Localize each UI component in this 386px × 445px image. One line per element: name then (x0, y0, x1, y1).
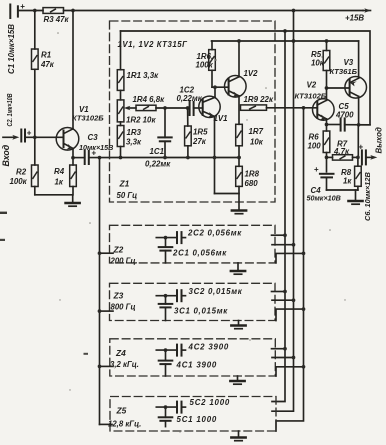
node supply-R5 (325, 39, 329, 43)
node bus-Z4 (98, 365, 102, 369)
svg-text:5С1 1000: 5С1 1000 (177, 415, 218, 424)
wire emitter to 1R8 bottom (215, 193, 240, 195)
ground output stage (348, 190, 362, 204)
svg-text:800 Гц: 800 Гц (111, 303, 136, 312)
svg-text:Выход: Выход (375, 127, 384, 153)
transistor V3 (330, 41, 367, 125)
scan artifact dash left edge 2 (0, 239, 5, 241)
wire Z4 stub3 to bus C (276, 367, 304, 376)
svg-text:200 Гц.: 200 Гц. (110, 257, 138, 266)
wire Z4 left stub (100, 365, 114, 367)
node base-R1-R2 (33, 135, 37, 139)
node busC-Z3 (302, 307, 306, 311)
block Z5 dashed box (110, 397, 276, 432)
capacitor C4 (307, 165, 341, 202)
svg-text:5С2 1000: 5С2 1000 (190, 398, 231, 407)
transistor 1V2 (225, 41, 259, 124)
wire Z3 stub1 to bus A (272, 291, 286, 293)
svg-text:3,2 кГц.: 3,2 кГц. (110, 360, 139, 369)
svg-text:+15В: +15В (345, 13, 364, 22)
node V2 emitter-R6-C5 (325, 123, 329, 127)
svg-text:0,22мк: 0,22мк (145, 159, 171, 168)
svg-text:2С2 0,056мк: 2С2 0,056мк (187, 228, 242, 237)
svg-text:1V1, 1V2 КТ315Г: 1V1, 1V2 КТ315Г (118, 40, 189, 49)
capacitor 3C1 (159, 296, 229, 321)
svg-text:27к: 27к (192, 137, 207, 146)
wire C1 to R3 (19, 10, 43, 12)
svg-text:50 Гц: 50 Гц (117, 191, 138, 200)
node busC-Z4 (302, 365, 306, 369)
node busB-Z4 (292, 356, 296, 360)
svg-text:R3 47к: R3 47к (44, 15, 70, 24)
svg-text:2С1 0,056мк: 2С1 0,056мк (172, 248, 227, 257)
svg-text:12,8 кГц.: 12,8 кГц. (108, 419, 141, 428)
scan artifact dash left edge (0, 212, 7, 214)
wire Z2 left stub (100, 252, 114, 254)
node rail-R1 (33, 9, 37, 13)
scan speckles (57, 32, 345, 432)
wire Z4 stub1 to bus A (272, 348, 286, 350)
ground Z5 (231, 431, 245, 441)
resistor R4 (54, 158, 76, 195)
node 1C1 tap (163, 106, 167, 110)
resistor 1R7 (236, 124, 264, 166)
svg-text:КТ3102Б: КТ3102Б (295, 92, 327, 101)
svg-text:1V1: 1V1 (214, 114, 228, 123)
svg-text:1R7: 1R7 (249, 127, 264, 136)
svg-text:4С2 3900: 4С2 3900 (188, 342, 230, 351)
svg-text:V3: V3 (344, 58, 354, 67)
resistor 1R8 (236, 166, 260, 210)
resistor R6 (308, 125, 330, 172)
svg-text:680: 680 (245, 179, 259, 188)
capacitor C5 (327, 102, 371, 131)
node busB-Z3 (292, 298, 296, 302)
svg-text:1к: 1к (55, 177, 64, 186)
ground Z2 (231, 263, 245, 274)
svg-text:С3: С3 (88, 133, 99, 142)
node 1C1 bottom (163, 156, 167, 160)
wire bus A (feedback) (272, 31, 285, 402)
node 1R5 tap (186, 106, 190, 110)
wire V3 base (327, 87, 350, 89)
svg-text:10мк×15В: 10мк×15В (79, 143, 113, 152)
wire C3 to Z1 input line (89, 157, 121, 159)
node 1R7-1R8-common (237, 156, 241, 160)
node rail-bus (292, 9, 296, 13)
wire Z3 stub2 to bus B (272, 299, 294, 301)
resistor R8 (341, 157, 361, 190)
transistor 1V1 (199, 87, 228, 193)
capacitor 5C2 (156, 398, 230, 413)
node collector tee (213, 85, 217, 89)
svg-text:50мк×10В: 50мк×10В (307, 193, 341, 202)
node 1V1 emitter on common line (213, 156, 217, 160)
node bus-Z3 (98, 309, 102, 313)
svg-text:0,22мк: 0,22мк (177, 94, 203, 103)
capacitor C3 (73, 133, 113, 164)
wire +15V rail (64, 10, 364, 12)
capacitor 1C1 (145, 108, 172, 168)
svg-text:3С1 0,015мк: 3С1 0,015мк (174, 307, 228, 316)
svg-text:Z1: Z1 (119, 179, 130, 189)
svg-text:100к: 100к (10, 177, 28, 186)
node R5-V2 collector-V3 base (325, 86, 329, 90)
node busC-Z2 (302, 252, 306, 256)
node 1R5 bottom (186, 156, 190, 160)
node output R7-R8-C6 (356, 156, 360, 160)
node R6-R7-C4 (325, 156, 329, 160)
node input bus tap (98, 156, 102, 160)
wire Z2 stub3 to bus C (276, 253, 304, 263)
capacitor 4C1 (159, 350, 217, 376)
capacitor 2C2 (156, 228, 242, 243)
input arrow (1, 135, 19, 167)
wire Z2 stub2 to bus B (272, 244, 294, 246)
capacitor 4C2 (156, 342, 229, 355)
node emitter-C3 (71, 156, 75, 160)
ground Z4 (230, 376, 244, 384)
svg-text:1R4 6,8к: 1R4 6,8к (133, 95, 166, 104)
capacitor 5C1 (159, 407, 217, 427)
svg-text:1С1: 1С1 (150, 147, 164, 156)
svg-text:Вход: Вход (1, 144, 11, 166)
block Z2 dashed box (110, 225, 276, 263)
node output-V3 collector-C5 (357, 123, 361, 127)
node 1R3 bottom (119, 156, 123, 160)
svg-text:1R2 10к: 1R2 10к (126, 115, 156, 124)
capacitor C6 (359, 143, 373, 222)
svg-text:1R3: 1R3 (127, 128, 142, 137)
wire Z3 left stub (100, 310, 114, 312)
wire C2 to V1 base (25, 136, 64, 138)
capacitor 3C2 (156, 287, 242, 301)
wire C4 bottom to R8 bottom (327, 189, 358, 191)
resistor 1R3 (117, 122, 142, 158)
resistor 1R9 (241, 95, 318, 111)
svg-text:V1: V1 (79, 105, 89, 114)
wire Z2 stub1 to bus A (272, 234, 286, 236)
node busB-Z2 (292, 243, 296, 247)
wire V3 collector down to R7/R8 node (357, 125, 359, 158)
capacitor 2C1 (159, 238, 228, 263)
transistor V2 (295, 80, 335, 124)
potentiometer 1R2 (117, 90, 156, 124)
svg-text:4700: 4700 (335, 110, 354, 119)
ground Z1 (232, 211, 246, 214)
svg-text:4,7к: 4,7к (333, 147, 350, 156)
wire R2-R4 bottoms (35, 194, 73, 196)
svg-text:R4: R4 (54, 167, 65, 176)
svg-text:3,3к: 3,3к (126, 138, 142, 147)
node 3C1 tap (164, 294, 168, 298)
node 4C1 tap (164, 348, 168, 352)
resistor 1R1 (117, 31, 159, 90)
svg-text:1V2: 1V2 (244, 69, 259, 78)
svg-text:R2: R2 (16, 167, 27, 176)
wire bus C (summing) (276, 108, 304, 431)
svg-text:КТ3102Б: КТ3102Б (72, 114, 104, 123)
scan artifact dash left edge 3 (84, 353, 89, 355)
node busA-Z2 (283, 233, 287, 237)
svg-text:КТ361Б: КТ361Б (330, 67, 358, 76)
svg-text:Z4: Z4 (115, 348, 126, 358)
wire feedback line (Z1 top) (121, 31, 371, 125)
ground Z3 (231, 321, 245, 329)
resistor 1R5 (185, 108, 208, 158)
node busA-Z4 (283, 347, 287, 351)
svg-text:1R1 3,3к: 1R1 3,3к (127, 71, 160, 80)
svg-text:1к: 1к (343, 176, 352, 185)
block Z4 dashed box (110, 339, 275, 376)
svg-text:100к: 100к (196, 60, 214, 69)
svg-text:1R8: 1R8 (245, 169, 260, 178)
svg-text:С6. 10мк×12В: С6. 10мк×12В (363, 171, 372, 221)
capacitor C2 (6, 93, 31, 141)
svg-text:4С1 3900: 4С1 3900 (176, 360, 218, 369)
svg-text:100: 100 (308, 141, 322, 150)
capacitor 1C2 (177, 85, 203, 115)
svg-text:1R9 22к: 1R9 22к (244, 95, 274, 104)
capacitor C1 (7, 2, 25, 74)
svg-text:Z3: Z3 (113, 291, 124, 301)
wire Z3 stub3 to bus C (276, 309, 304, 320)
resistor R3 (43, 8, 70, 24)
resistor R1 (32, 11, 55, 138)
wire 1V1 collector to 1V2 base (212, 86, 229, 88)
+15V supply arrow (345, 8, 371, 22)
transistor V1 (56, 11, 104, 158)
resistor R2 (10, 137, 39, 195)
wire Z5 left stub (100, 423, 113, 425)
svg-text:С2. 1мк×10В: С2. 1мк×10В (6, 93, 14, 126)
svg-text:47к: 47к (40, 60, 55, 69)
wire Z1 internal common line (121, 157, 241, 159)
node bus-Z2 (98, 251, 102, 255)
resistor 1R6 (196, 41, 216, 87)
node 2C1 tap (164, 236, 168, 240)
svg-text:+: + (20, 2, 25, 11)
node feedback-busA (283, 29, 287, 33)
svg-text:Z2: Z2 (113, 245, 124, 255)
block Z1 dashed box (110, 21, 276, 202)
node rail-V1 collector (71, 9, 75, 13)
node busC top (302, 106, 306, 110)
resistor R7 (327, 140, 359, 160)
svg-text:3С2 0,015мк: 3С2 0,015мк (189, 287, 243, 296)
node 5C1 tap (164, 405, 168, 409)
resistor 1R4 (133, 95, 188, 111)
svg-text:R6: R6 (309, 132, 320, 141)
svg-text:+: + (314, 165, 319, 174)
ground input stage (66, 195, 80, 206)
node busA-Z3 (283, 290, 287, 294)
resistor R5 (311, 41, 330, 88)
wire input bus (left vertical) (99, 158, 101, 425)
svg-text:+: + (27, 128, 32, 137)
svg-text:V2: V2 (307, 80, 317, 89)
svg-text:10к: 10к (250, 137, 264, 146)
svg-text:С1 10мк×15В: С1 10мк×15В (7, 24, 16, 74)
wire supply line Z1/output stage (212, 40, 359, 42)
wire bus B (+15V) (272, 11, 294, 412)
svg-text:R1: R1 (41, 51, 51, 60)
svg-text:Z5: Z5 (116, 406, 127, 416)
wire Z4 stub2 to bus B (272, 357, 294, 359)
svg-text:10к: 10к (311, 58, 325, 67)
svg-text:+: + (359, 143, 364, 152)
node supply-1V2 collector (237, 39, 241, 43)
output arrow (366, 127, 384, 160)
block Z3 dashed box (110, 283, 276, 320)
svg-text:1R5: 1R5 (193, 127, 208, 136)
node supply-busB (292, 39, 296, 43)
